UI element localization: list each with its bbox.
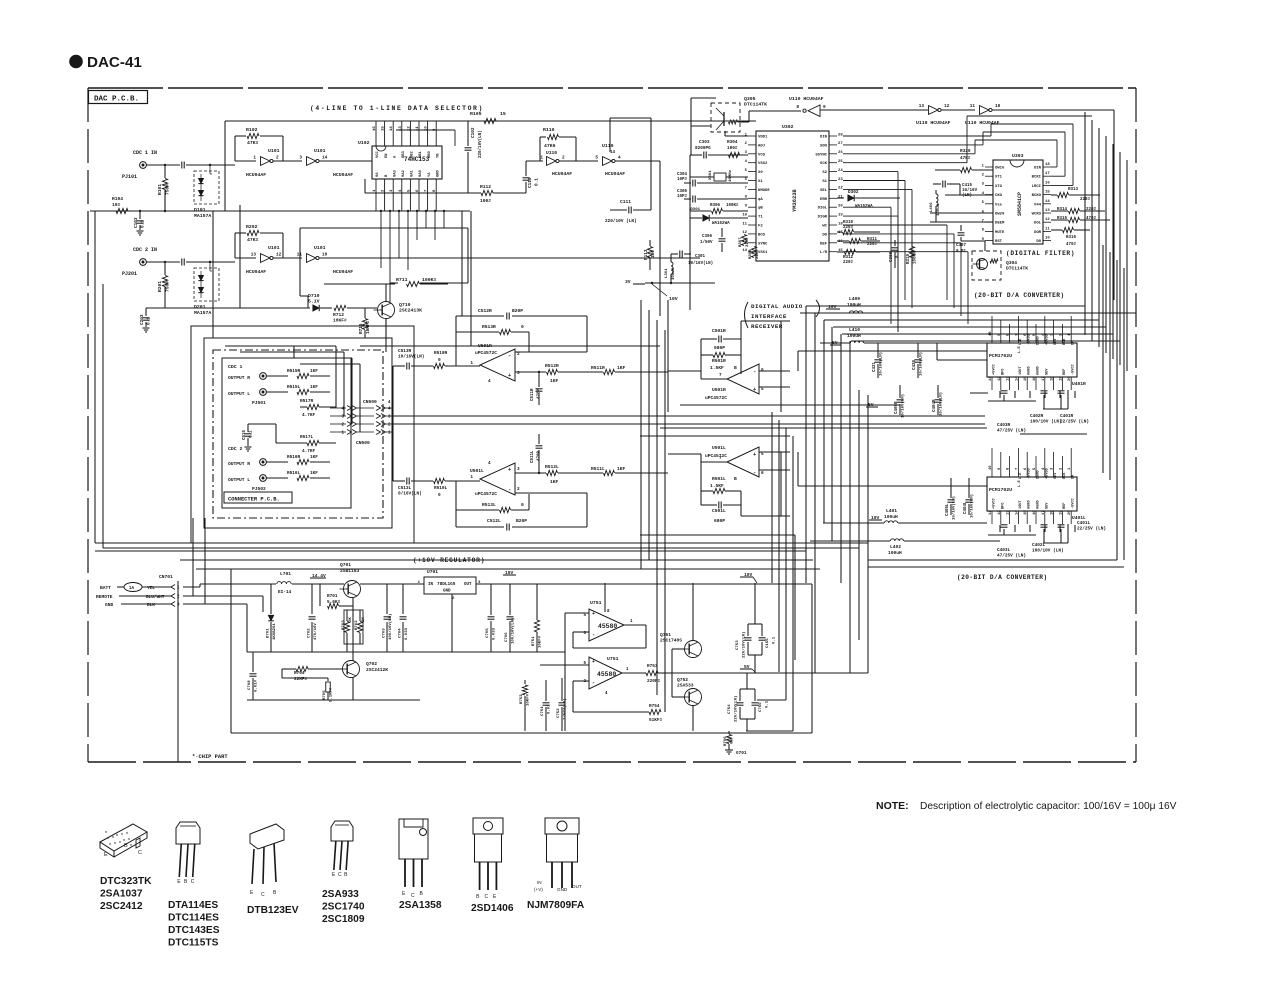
svg-text:1KF: 1KF bbox=[617, 466, 626, 472]
svg-text:1.5KF: 1.5KF bbox=[710, 365, 724, 371]
svg-text:2SC2412K: 2SC2412K bbox=[366, 667, 388, 673]
svg-text:R510R: R510R bbox=[434, 351, 448, 356]
svg-text:10KF#: 10KF# bbox=[366, 320, 371, 334]
svg-text:RECEIVER: RECEIVER bbox=[751, 323, 783, 330]
svg-text:SCK: SCK bbox=[820, 162, 828, 166]
svg-text:C501R: C501R bbox=[712, 328, 726, 334]
svg-text:U751: U751 bbox=[590, 600, 602, 606]
svg-text:51KF#: 51KF# bbox=[649, 718, 663, 723]
svg-text:DTB123EV: DTB123EV bbox=[247, 905, 299, 916]
svg-text:0: 0 bbox=[438, 358, 441, 363]
svg-text:R513R: R513R bbox=[482, 324, 496, 330]
svg-text:OUT: OUT bbox=[572, 884, 582, 889]
svg-text:R711: R711 bbox=[396, 277, 408, 283]
svg-text:SDO: SDO bbox=[820, 144, 828, 148]
svg-text:C751: C751 bbox=[541, 706, 545, 716]
svg-text:680P: 680P bbox=[714, 518, 725, 524]
svg-text:10/16V(LN): 10/16V(LN) bbox=[901, 394, 906, 418]
svg-text:GND: GND bbox=[443, 590, 451, 594]
svg-text:10KF#: 10KF# bbox=[333, 317, 347, 323]
svg-text:-5VDD: -5VDD bbox=[1028, 467, 1032, 479]
svg-text:PCM1702U: PCM1702U bbox=[989, 353, 1012, 359]
svg-text:100uH: 100uH bbox=[847, 302, 861, 308]
svg-text:B20P: B20P bbox=[512, 308, 523, 314]
svg-text:DIN: DIN bbox=[1034, 167, 1042, 171]
svg-text:10/16V(LN): 10/16V(LN) bbox=[398, 355, 424, 360]
svg-text:-5VCC: -5VCC bbox=[1072, 363, 1076, 375]
svg-text:R308: R308 bbox=[749, 249, 753, 259]
svg-text:C512L: C512L bbox=[487, 518, 501, 524]
svg-text:L.E: L.E bbox=[1018, 345, 1022, 353]
svg-text:C203: C203 bbox=[140, 314, 145, 325]
svg-text:R501L: R501L bbox=[712, 476, 726, 482]
svg-text:G701: G701 bbox=[736, 751, 747, 756]
svg-text:100: 100 bbox=[651, 250, 656, 258]
svg-text:U110 HCU04AF: U110 HCU04AF bbox=[789, 96, 824, 102]
svg-text:750#: 750# bbox=[165, 281, 171, 292]
svg-text:750#: 750# bbox=[165, 184, 171, 195]
svg-text:R704: R704 bbox=[294, 671, 305, 676]
svg-text:26: 26 bbox=[838, 151, 843, 155]
svg-text:BATT: BATT bbox=[100, 585, 111, 591]
svg-text:C: C bbox=[191, 879, 195, 885]
svg-text:SYNC: SYNC bbox=[758, 242, 768, 246]
svg-text:VSS2: VSS2 bbox=[758, 162, 768, 166]
svg-text:20: 20 bbox=[1068, 510, 1072, 515]
svg-text:9: 9 bbox=[823, 105, 826, 110]
svg-text:C307: C307 bbox=[956, 244, 967, 248]
svg-text:U501L: U501L bbox=[712, 445, 726, 451]
svg-text:U302: U302 bbox=[782, 124, 794, 130]
svg-text:RST: RST bbox=[995, 240, 1003, 244]
svg-text:C706: C706 bbox=[505, 632, 509, 642]
svg-text:C501L: C501L bbox=[712, 508, 726, 514]
svg-text:U110: U110 bbox=[602, 143, 614, 149]
svg-text:D302: D302 bbox=[848, 190, 859, 195]
svg-text:Q702: Q702 bbox=[366, 661, 377, 667]
svg-text:15: 15 bbox=[1045, 191, 1050, 195]
svg-text:CONNECTER P.C.B.: CONNECTER P.C.B. bbox=[228, 497, 280, 503]
svg-text:47K6: 47K6 bbox=[544, 143, 556, 149]
svg-text:R754: R754 bbox=[649, 704, 660, 709]
svg-text:XTO: XTO bbox=[995, 185, 1003, 189]
svg-text:Q751: Q751 bbox=[660, 632, 671, 638]
svg-text:-5VCC: -5VCC bbox=[1072, 497, 1076, 509]
svg-text:0: 0 bbox=[521, 502, 524, 508]
svg-text:PJ101: PJ101 bbox=[122, 174, 137, 180]
svg-text:47K#: 47K# bbox=[247, 140, 259, 146]
svg-text:IN: IN bbox=[537, 880, 542, 885]
svg-text:D201: D201 bbox=[194, 304, 206, 310]
svg-text:DTC143ES: DTC143ES bbox=[168, 925, 220, 936]
svg-text:R512L: R512L bbox=[545, 464, 559, 470]
svg-text:LRCI: LRCI bbox=[1032, 185, 1042, 189]
svg-text:100uH: 100uH bbox=[884, 514, 898, 520]
svg-text:22/25V (LN): 22/25V (LN) bbox=[1060, 419, 1089, 424]
svg-text:5: 5 bbox=[595, 156, 598, 161]
svg-text:MUTE: MUTE bbox=[995, 231, 1005, 235]
svg-text:220/10V(LN): 220/10V(LN) bbox=[734, 696, 739, 722]
svg-text:V44: V44 bbox=[1034, 203, 1042, 207]
svg-text:17: 17 bbox=[1042, 376, 1046, 381]
svg-text:0.01#: 0.01# bbox=[255, 679, 259, 692]
svg-text:EI-14: EI-14 bbox=[278, 590, 292, 595]
svg-text:S2: S2 bbox=[822, 171, 827, 175]
svg-text:3: 3 bbox=[517, 467, 520, 472]
svg-text:SM5841CP: SM5841CP bbox=[1017, 192, 1023, 216]
svg-text:10: 10 bbox=[1045, 237, 1050, 241]
svg-text:-5VDD: -5VDD bbox=[1028, 333, 1032, 345]
svg-text:1KF: 1KF bbox=[310, 455, 318, 460]
svg-text:C: C bbox=[138, 850, 142, 856]
svg-text:1OUT: 1OUT bbox=[1019, 366, 1023, 375]
svg-text:DOL: DOL bbox=[1034, 222, 1042, 226]
svg-text:AGND: AGND bbox=[1028, 366, 1032, 375]
svg-text:16: 16 bbox=[1045, 181, 1050, 185]
svg-text:L.E: L.E bbox=[1018, 479, 1022, 487]
svg-text:0A0: 0A0 bbox=[419, 169, 423, 177]
svg-text:VDD1: VDD1 bbox=[758, 136, 768, 140]
svg-text:10P#: 10P# bbox=[677, 178, 688, 182]
svg-text:-: - bbox=[592, 680, 595, 686]
svg-text:uPC4572C: uPC4572C bbox=[705, 453, 727, 459]
svg-text:220#: 220# bbox=[756, 249, 760, 259]
svg-text:2SC1740S: 2SC1740S bbox=[660, 638, 682, 644]
svg-text:+: + bbox=[592, 611, 595, 617]
svg-text:100/16V(LN): 100/16V(LN) bbox=[388, 614, 393, 640]
svg-text:X301: X301 bbox=[709, 170, 713, 180]
svg-text:U101: U101 bbox=[314, 148, 326, 154]
svg-text:HCU04AF: HCU04AF bbox=[333, 172, 353, 178]
svg-text:SEV: SEV bbox=[1054, 472, 1058, 479]
svg-text:*·CHIP PART: *·CHIP PART bbox=[192, 754, 228, 760]
svg-text:YB: YB bbox=[436, 153, 440, 158]
svg-text:14: 14 bbox=[322, 156, 328, 161]
svg-text:CN701: CN701 bbox=[159, 574, 173, 580]
svg-text:10/16V(LN): 10/16V(LN) bbox=[970, 494, 975, 518]
svg-text:R501R: R501R bbox=[712, 358, 726, 364]
svg-text:1KF: 1KF bbox=[310, 385, 318, 390]
svg-text:2: 2 bbox=[562, 156, 565, 161]
svg-text:U701: U701 bbox=[427, 569, 438, 575]
svg-text:DB1: DB1 bbox=[419, 150, 423, 158]
svg-text:4.7KF: 4.7KF bbox=[302, 449, 316, 454]
svg-text:L410: L410 bbox=[849, 327, 860, 333]
svg-text:C420: C420 bbox=[913, 359, 917, 370]
svg-text:VCO: VCO bbox=[758, 153, 766, 157]
svg-text:E: E bbox=[104, 852, 108, 858]
svg-text:220#: 220# bbox=[843, 261, 854, 265]
svg-text:4: 4 bbox=[488, 379, 491, 384]
svg-text:D301: D301 bbox=[690, 208, 700, 212]
svg-text:Q305: Q305 bbox=[744, 96, 756, 102]
svg-text:AGND: AGND bbox=[1037, 500, 1041, 509]
svg-text:0.033: 0.033 bbox=[493, 627, 497, 640]
svg-text:12: 12 bbox=[276, 253, 282, 258]
svg-text:2SC2413K: 2SC2413K bbox=[399, 307, 422, 313]
svg-text:YA: YA bbox=[428, 172, 432, 177]
svg-text:PJ501: PJ501 bbox=[252, 400, 266, 406]
svg-text:DGND: DGND bbox=[1037, 470, 1041, 479]
svg-text:DIGITAL AUDIO: DIGITAL AUDIO bbox=[751, 303, 803, 310]
svg-text:φB: φB bbox=[758, 207, 763, 211]
svg-text:C308: C308 bbox=[890, 251, 894, 262]
svg-text:(20-BIT D/A CONVERTER): (20-BIT D/A CONVERTER) bbox=[957, 574, 1048, 581]
svg-text:IN: IN bbox=[428, 583, 434, 587]
svg-text:19: 19 bbox=[1059, 376, 1063, 381]
svg-text:C303: C303 bbox=[699, 140, 710, 145]
svg-text:17: 17 bbox=[1045, 172, 1050, 176]
svg-text:DB0: DB0 bbox=[428, 150, 432, 158]
svg-text:0.1: 0.1 bbox=[250, 430, 254, 438]
svg-text:R517R: R517R bbox=[300, 399, 314, 404]
svg-text:C305: C305 bbox=[677, 190, 688, 194]
svg-text:14: 14 bbox=[742, 249, 747, 253]
svg-text:0A2: 0A2 bbox=[402, 169, 406, 177]
svg-text:MA157A: MA157A bbox=[194, 310, 211, 316]
svg-text:78DL1G5: 78DL1G5 bbox=[437, 582, 456, 587]
svg-text:C155: C155 bbox=[766, 638, 770, 648]
svg-text:X0: X0 bbox=[758, 171, 763, 175]
svg-text:C403L: C403L bbox=[997, 548, 1011, 553]
svg-text:C705: C705 bbox=[486, 628, 490, 638]
svg-text:R702: R702 bbox=[355, 620, 359, 630]
svg-text:DTC323TK: DTC323TK bbox=[100, 876, 152, 887]
svg-text:2SA1358: 2SA1358 bbox=[399, 900, 442, 911]
svg-text:(DIGITAL FILTER): (DIGITAL FILTER) bbox=[1006, 250, 1075, 257]
svg-text:R306: R306 bbox=[710, 204, 721, 208]
svg-text:AGND: AGND bbox=[1028, 500, 1032, 509]
svg-text:100uH: 100uH bbox=[672, 267, 676, 280]
svg-text:R705: R705 bbox=[323, 690, 327, 700]
svg-text:R751: R751 bbox=[532, 636, 536, 646]
svg-text:CN500: CN500 bbox=[356, 440, 370, 446]
svg-text:PCM1702U: PCM1702U bbox=[989, 487, 1012, 493]
svg-text:NJM7809FA: NJM7809FA bbox=[527, 900, 585, 911]
svg-text:Q752: Q752 bbox=[677, 677, 688, 683]
svg-text:OUTPUT L: OUTPUT L bbox=[228, 391, 250, 397]
svg-text:U101: U101 bbox=[268, 245, 280, 251]
svg-text:220/10V(LN): 220/10V(LN) bbox=[742, 632, 747, 658]
svg-text:U101: U101 bbox=[314, 245, 326, 251]
svg-text:C304: C304 bbox=[677, 173, 688, 177]
svg-text:S1: S1 bbox=[822, 180, 827, 184]
svg-text:HCU04AF: HCU04AF bbox=[333, 269, 353, 275]
svg-text:28: 28 bbox=[838, 133, 843, 137]
svg-text:17: 17 bbox=[1042, 510, 1046, 515]
svg-text:27: 27 bbox=[838, 142, 843, 146]
svg-text:L401: L401 bbox=[886, 508, 897, 514]
svg-text:R101: R101 bbox=[157, 184, 163, 195]
svg-text:25: 25 bbox=[838, 160, 843, 164]
svg-text:ERR: ERR bbox=[820, 198, 828, 202]
svg-text:0.1: 0.1 bbox=[773, 636, 777, 644]
svg-text:C754: C754 bbox=[728, 704, 732, 714]
svg-text:C103: C103 bbox=[134, 217, 139, 228]
svg-text:(+V): (+V) bbox=[534, 887, 543, 892]
svg-text:18: 18 bbox=[1051, 510, 1055, 515]
svg-text:OW16: OW16 bbox=[995, 167, 1005, 171]
svg-text:R319: R319 bbox=[907, 253, 911, 264]
svg-text:100/16V(LN): 100/16V(LN) bbox=[511, 618, 516, 644]
svg-text:C404L: C404L bbox=[964, 501, 968, 514]
svg-text:3V: 3V bbox=[625, 279, 631, 285]
svg-text:INTERFACE: INTERFACE bbox=[751, 313, 787, 320]
svg-text:DGND: DGND bbox=[1037, 336, 1041, 345]
svg-text:B: B bbox=[734, 476, 737, 482]
svg-text:10/16V(LN): 10/16V(LN) bbox=[688, 261, 713, 266]
svg-text:-: - bbox=[753, 469, 756, 476]
svg-text:R105: R105 bbox=[470, 111, 482, 117]
svg-text:22/25V (LN): 22/25V (LN) bbox=[1077, 526, 1106, 531]
svg-text:DAC P.C.B.: DAC P.C.B. bbox=[94, 96, 139, 104]
svg-text:1KF: 1KF bbox=[550, 378, 559, 384]
svg-text:1KF: 1KF bbox=[617, 365, 626, 371]
svg-text:YM3623B: YM3623B bbox=[792, 189, 798, 212]
svg-text:U110 HCU04AF: U110 HCU04AF bbox=[916, 120, 951, 126]
svg-text:220#: 220# bbox=[867, 243, 878, 247]
svg-text:220F#: 220F# bbox=[647, 679, 661, 684]
svg-text:DTC115TS: DTC115TS bbox=[168, 938, 219, 949]
svg-text:2SA1037: 2SA1037 bbox=[100, 889, 143, 900]
svg-text:10/16V(LN): 10/16V(LN) bbox=[952, 496, 957, 520]
svg-text:U303: U303 bbox=[1012, 153, 1024, 159]
svg-text:DB2: DB2 bbox=[411, 150, 415, 158]
svg-text:GND: GND bbox=[557, 887, 568, 892]
svg-text:+5VDD: +5VDD bbox=[1045, 467, 1049, 479]
svg-text:R712: R712 bbox=[333, 312, 344, 318]
svg-text:10: 10 bbox=[989, 465, 993, 470]
svg-text:WC: WC bbox=[822, 225, 827, 229]
svg-text:ADJ: ADJ bbox=[758, 144, 765, 148]
svg-text:11: 11 bbox=[989, 376, 993, 381]
svg-text:R516R: R516R bbox=[287, 455, 301, 460]
svg-text:0.1: 0.1 bbox=[897, 250, 901, 258]
svg-text:HCU04AF: HCU04AF bbox=[246, 269, 266, 275]
svg-text:2SA933: 2SA933 bbox=[322, 889, 359, 900]
svg-text:C: C bbox=[411, 893, 415, 899]
svg-text:C511R: C511R bbox=[531, 388, 535, 401]
svg-text:R701: R701 bbox=[327, 594, 338, 599]
svg-text:15: 15 bbox=[1024, 376, 1028, 381]
svg-text:100/10V (LN): 100/10V (LN) bbox=[1032, 548, 1064, 553]
svg-text:0.01: 0.01 bbox=[548, 704, 552, 714]
svg-text:10: 10 bbox=[989, 331, 993, 336]
svg-text:C415: C415 bbox=[962, 184, 973, 188]
svg-text:B20P: B20P bbox=[516, 518, 527, 524]
svg-text:R320: R320 bbox=[960, 149, 971, 154]
svg-text:220#: 220# bbox=[843, 226, 854, 230]
svg-text:0.1: 0.1 bbox=[141, 220, 146, 228]
svg-text:B: B bbox=[124, 843, 128, 849]
svg-text:+5VCC: +5VCC bbox=[993, 497, 997, 509]
svg-text:16: 16 bbox=[1033, 376, 1037, 381]
svg-text:GND: GND bbox=[436, 169, 440, 177]
svg-text:8200PG: 8200PG bbox=[695, 146, 711, 151]
svg-text:100uH: 100uH bbox=[888, 550, 902, 556]
svg-text:L409: L409 bbox=[849, 296, 860, 302]
svg-text:CDC 1 IN: CDC 1 IN bbox=[133, 150, 157, 156]
svg-text:DTC114TK: DTC114TK bbox=[1006, 265, 1028, 271]
svg-text:AGND: AGND bbox=[1037, 366, 1041, 375]
svg-text:4.7KF: 4.7KF bbox=[302, 413, 316, 418]
svg-text:47K#: 47K# bbox=[960, 156, 971, 161]
svg-text:C704: C704 bbox=[399, 628, 403, 638]
svg-text:2SA533: 2SA533 bbox=[677, 683, 694, 689]
svg-text:100#: 100# bbox=[480, 198, 491, 204]
svg-text:47K#: 47K# bbox=[247, 237, 259, 243]
svg-text:10V: 10V bbox=[669, 296, 678, 302]
svg-text:16: 16 bbox=[1033, 510, 1037, 515]
svg-text:0.1: 0.1 bbox=[147, 317, 152, 325]
svg-text:DAC-41: DAC-41 bbox=[87, 54, 142, 71]
svg-text:C: C bbox=[485, 894, 489, 900]
svg-text:10KF#: 10KF# bbox=[539, 635, 543, 648]
svg-text:19: 19 bbox=[1059, 510, 1063, 515]
svg-text:19: 19 bbox=[838, 213, 843, 217]
svg-text:U751: U751 bbox=[607, 656, 619, 662]
svg-text:10/16V(LN): 10/16V(LN) bbox=[879, 352, 884, 376]
svg-text:NOTE:: NOTE: bbox=[876, 800, 909, 812]
svg-text:10/16V: 10/16V bbox=[962, 188, 978, 193]
svg-text:10P#: 10P# bbox=[677, 195, 688, 199]
svg-text:13: 13 bbox=[1007, 376, 1011, 381]
svg-text:5.1V: 5.1V bbox=[308, 298, 320, 304]
svg-text:+: + bbox=[592, 659, 595, 665]
svg-text:C703: C703 bbox=[383, 628, 387, 638]
svg-text:L701: L701 bbox=[280, 571, 291, 577]
svg-text:R511L: R511L bbox=[591, 466, 605, 472]
svg-text:D701: D701 bbox=[267, 628, 271, 638]
svg-text:16MHz: 16MHz bbox=[729, 169, 733, 182]
svg-text:2SD1406: 2SD1406 bbox=[471, 903, 514, 914]
svg-text:L301: L301 bbox=[665, 268, 669, 278]
svg-text:PJ201: PJ201 bbox=[122, 271, 137, 277]
svg-text:7: 7 bbox=[719, 456, 722, 461]
svg-text:74HC153: 74HC153 bbox=[404, 156, 430, 163]
svg-text:0A: 0A bbox=[376, 172, 380, 177]
svg-text:R710: R710 bbox=[359, 323, 364, 334]
svg-text:10: 10 bbox=[995, 104, 1001, 109]
svg-text:15: 15 bbox=[1024, 510, 1028, 515]
svg-text:WA152WA: WA152WA bbox=[855, 205, 873, 209]
svg-text:11: 11 bbox=[742, 222, 747, 226]
svg-text:R516L: R516L bbox=[287, 471, 301, 476]
svg-text:R113: R113 bbox=[644, 249, 649, 260]
svg-text:Q710: Q710 bbox=[399, 302, 411, 308]
svg-text:BCK: BCK bbox=[1063, 472, 1067, 479]
svg-text:DO: DO bbox=[822, 233, 827, 237]
svg-text:KMODE: KMODE bbox=[758, 189, 770, 193]
svg-text:1.5KF: 1.5KF bbox=[710, 483, 724, 489]
svg-text:16: 16 bbox=[373, 126, 377, 131]
svg-text:-: - bbox=[753, 368, 756, 375]
svg-text:C513R: C513R bbox=[398, 349, 412, 354]
svg-text:C: C bbox=[261, 892, 265, 898]
svg-text:18: 18 bbox=[1051, 376, 1055, 381]
svg-text:0: 0 bbox=[521, 324, 524, 330]
svg-text:10: 10 bbox=[322, 253, 328, 258]
svg-text:C752: C752 bbox=[557, 708, 561, 718]
svg-text:220/10V (LN): 220/10V (LN) bbox=[605, 219, 637, 224]
svg-text:D710: D710 bbox=[308, 293, 320, 299]
svg-text:0.033: 0.033 bbox=[405, 627, 409, 640]
svg-text:C306: C306 bbox=[702, 235, 713, 239]
svg-text:CN500: CN500 bbox=[363, 399, 377, 405]
svg-text:F2: F2 bbox=[758, 225, 763, 229]
svg-text:L406: L406 bbox=[930, 202, 934, 212]
svg-text:DTC114TK: DTC114TK bbox=[744, 101, 767, 107]
